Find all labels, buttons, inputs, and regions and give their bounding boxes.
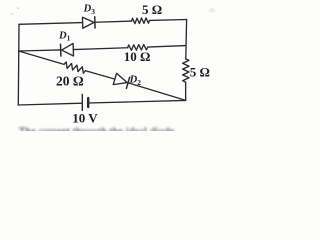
wire right side lower to bottom-right corner	[185, 82, 187, 100]
diode D3	[82, 17, 95, 29]
resistor 10 ohm	[128, 44, 148, 50]
wire D3 cathode to 5-ohm resistor	[95, 21, 131, 22]
cropped caption text at bottom	[19, 127, 175, 138]
svg-text:The current through the ideal: The current through the ideal diode	[19, 127, 175, 132]
stray scan speckles	[11, 7, 216, 14]
wire diagonal from junction to 20-ohm resistor	[19, 51, 64, 64]
wire left side (top-left corner to bottom-left corner)	[17, 24, 20, 105]
wire right side upper (corner down to 5-ohm vertical)	[185, 20, 188, 60]
node junction left middle	[18, 50, 20, 52]
wire battery to bottom-right corner	[88, 100, 186, 103]
battery 10 V negative plate (short)	[87, 98, 89, 107]
svg-text:D3: D3	[83, 4, 96, 16]
svg-text:10 Ω: 10 Ω	[124, 49, 151, 64]
wire D1 anode to 10-ohm resistor	[73, 48, 127, 50]
battery 10 V positive plate (long)	[81, 94, 83, 110]
svg-text:D2: D2	[129, 75, 142, 87]
svg-text:20 Ω: 20 Ω	[56, 73, 84, 88]
wire top-left to D3 anode	[19, 23, 83, 25]
wire 20-ohm to D2 anode	[86, 71, 115, 79]
resistor 20 ohm (on diagonal)	[63, 62, 86, 74]
diode D2 (on diagonal)	[113, 73, 129, 88]
resistor 5 ohm (right vertical)	[183, 59, 189, 82]
svg-text:D1: D1	[58, 30, 71, 42]
svg-text:5 Ω: 5 Ω	[190, 65, 210, 80]
diode D1 (pointing left)	[61, 43, 74, 56]
wire 5-ohm to top-right corner	[150, 19, 187, 22]
wire junction to D1 cathode	[19, 50, 61, 51]
wire D2 cathode to bottom-right corner	[128, 83, 185, 101]
resistor 5 ohm (top)	[131, 18, 149, 24]
wire bottom-left to battery positive plate	[18, 103, 82, 105]
svg-text:5 Ω: 5 Ω	[142, 2, 162, 17]
wire 10-ohm to right side	[148, 46, 186, 47]
svg-text:10 V: 10 V	[72, 110, 98, 125]
